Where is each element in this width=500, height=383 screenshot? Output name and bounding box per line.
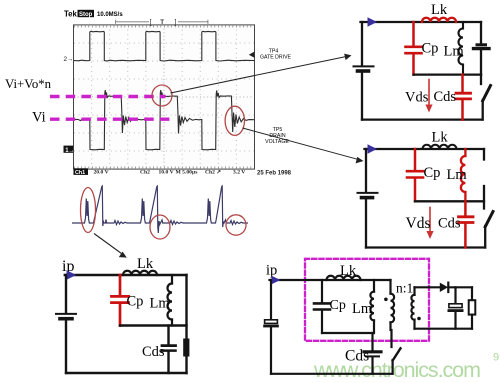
svg-text:3.2 V: 3.2 V [233, 170, 245, 176]
transformer primary winding [391, 280, 395, 330]
svg-text:Lm: Lm [352, 301, 373, 317]
capacitor Cp (black) [314, 280, 330, 333]
svg-text:Vi: Vi [32, 110, 46, 126]
svg-text:Cp: Cp [424, 165, 441, 181]
highlight ellipse on turn-off spike [152, 85, 172, 106]
inductor Lk (red) [422, 18, 456, 22]
annotation arrow to circuit 2 [243, 128, 360, 160]
svg-text:Lk: Lk [431, 2, 448, 18]
T position bracket [116, 20, 208, 24]
switch blade [485, 212, 493, 227]
status bar readouts [94, 170, 246, 176]
wire top [65, 274, 187, 276]
switch lower wire [392, 360, 394, 374]
svg-text:Lk: Lk [340, 263, 357, 279]
wire right mid stub [483, 186, 485, 209]
svg-text:20.0 V: 20.0 V [94, 170, 109, 176]
source nVo plate short [477, 43, 486, 46]
primary current waveform [72, 186, 248, 233]
svg-text:Lk: Lk [432, 130, 449, 146]
wire mid [414, 73, 482, 75]
transformer secondary winding [411, 287, 414, 328]
svg-text:9: 9 [493, 352, 499, 364]
wire left lower [270, 327, 272, 373]
dashed resonant-tank box [305, 259, 429, 341]
wire mid [120, 324, 187, 326]
wire left upper [65, 275, 67, 313]
source plate short [60, 317, 72, 321]
current arrow [368, 17, 378, 26]
source plate long [56, 313, 76, 315]
Ch2 gate drive trace [74, 31, 254, 61]
full flyback circuit (bottom right) [265, 259, 476, 374]
equivalent circuit 1 (diode conducting) [354, 2, 491, 120]
svg-text:Cds: Cds [434, 89, 457, 105]
channel 1 marker [64, 146, 74, 153]
svg-text:Lm: Lm [444, 44, 465, 60]
grid center crosshair lines [74, 25, 254, 169]
current arrow [67, 270, 77, 279]
switch blade [393, 348, 401, 360]
secondary top wire [415, 286, 440, 288]
switch lower wire [482, 100, 484, 120]
svg-text:Cds: Cds [142, 344, 165, 360]
load wire lower [471, 315, 473, 329]
capacitor Cds (red) [456, 75, 471, 120]
wire right [185, 275, 187, 373]
svg-text:M 5.00µs: M 5.00µs [176, 170, 199, 176]
svg-text:Lm: Lm [447, 167, 468, 183]
wire left lower [65, 321, 67, 374]
svg-text:Vds: Vds [405, 90, 429, 106]
source Vi plate long [358, 192, 378, 194]
bottom edge tick ruler [74, 166, 254, 168]
grid dotted rows [74, 43, 254, 151]
current arrow [272, 276, 281, 285]
oscilloscope screenshot [64, 10, 292, 177]
equivalent circuit 3 (bottom left, switch on) [56, 256, 189, 373]
Ch1 drain voltage trace [74, 90, 254, 150]
svg-text:Stop: Stop [79, 12, 93, 18]
highlight ellipse on ringing [225, 106, 244, 135]
switch lower wire [484, 226, 486, 248]
wire left lower [361, 73, 363, 120]
diode D [440, 283, 448, 292]
load wire upper [471, 287, 473, 300]
capacitor Cds (black) [162, 326, 176, 374]
svg-text:Cds: Cds [345, 348, 369, 365]
svg-text:Cp: Cp [422, 41, 439, 57]
equivalent circuit 2 (diode off) [358, 130, 494, 248]
wire left upper [270, 280, 272, 319]
capacitor Cds (black) [364, 333, 381, 374]
svg-text:Vi+Vo*n: Vi+Vo*n [5, 77, 52, 91]
capacitor Cp (red) [406, 22, 422, 75]
highlight ellipse on turn-off edge [150, 215, 170, 239]
grid dotted columns [92, 25, 237, 169]
highlight ellipse on turn-on spike [81, 188, 96, 233]
svg-text:T: T [160, 19, 164, 26]
wire top [361, 21, 482, 23]
switch closed bar [183, 339, 189, 357]
inductor Lm (red) [461, 149, 466, 201]
svg-text:Ch2 ↗: Ch2 ↗ [205, 170, 221, 176]
inductor Lk (black) [423, 145, 457, 149]
capacitor Cp (red) [112, 275, 129, 326]
svg-text:Cp: Cp [330, 298, 346, 313]
output cap wire [454, 287, 456, 303]
inductor Lk (black) [327, 276, 361, 280]
wire left upper [361, 22, 363, 65]
current arrow [368, 144, 378, 153]
secondary bottom wire [415, 328, 473, 330]
wire mid [322, 332, 374, 334]
wire bottom [362, 118, 483, 120]
source Vi plate short [362, 196, 373, 200]
wire right mid [480, 51, 482, 75]
wire bottom [366, 246, 485, 248]
svg-text:Lk: Lk [137, 256, 154, 272]
status bar Ch1 badge [74, 168, 89, 175]
output cap hollow plate [449, 304, 462, 308]
inductor Lk (black) [123, 271, 157, 275]
wire right upper stub [483, 149, 485, 160]
trigger level arrow [249, 52, 255, 58]
annotation arrow to circuit 1 [171, 56, 348, 93]
source Vi plate long [354, 65, 374, 67]
output cap wire lower [454, 312, 456, 329]
svg-text:GATE DRIVE: GATE DRIVE [260, 55, 292, 61]
svg-text:10.0MS/s: 10.0MS/s [97, 12, 123, 18]
input cap hollow plate [265, 320, 278, 324]
secondary polarity dot [417, 317, 421, 321]
secondary top wire 2 [448, 286, 472, 288]
svg-text:10.0 V: 10.0 V [159, 170, 174, 176]
Stop badge [78, 10, 95, 17]
svg-text:2→: 2→ [64, 56, 74, 63]
wire mid [415, 200, 484, 202]
svg-text:25 Feb 1998: 25 Feb 1998 [257, 171, 292, 177]
svg-text:1→: 1→ [65, 148, 74, 154]
highlight ellipse on residual ringing [226, 215, 246, 235]
source Vi plate short [358, 69, 369, 73]
svg-text:n:1: n:1 [396, 281, 413, 296]
svg-text:Ch2: Ch2 [140, 170, 150, 176]
input cap solid plate [265, 325, 278, 328]
svg-text:Tek: Tek [64, 10, 78, 19]
dashed level line Vi [50, 117, 170, 120]
switch upper wire [390, 330, 392, 347]
capacitor Cp (red) [407, 149, 423, 201]
source nVo plate long [474, 47, 490, 50]
annotation arrow to circuit 3 [94, 234, 124, 256]
wire bottom [66, 372, 187, 374]
primary polarity dot [384, 298, 388, 302]
top edge tick ruler [74, 25, 254, 27]
wire right upper [480, 22, 482, 43]
wire top [365, 148, 485, 150]
wire left lower [365, 199, 367, 247]
inductor Lm (black) [168, 275, 173, 326]
load resistor [469, 300, 476, 314]
svg-text:Cp: Cp [127, 294, 144, 310]
switch blade [483, 86, 491, 101]
svg-text:Lm: Lm [150, 296, 171, 312]
wire bottom [271, 373, 393, 375]
output cap solid plate [449, 309, 462, 312]
svg-text:VOLTAGE: VOLTAGE [265, 139, 289, 145]
wire left upper [365, 149, 367, 192]
svg-text:]: ] [175, 20, 177, 27]
inductor Lm (black) [459, 22, 463, 75]
Vds arrow [429, 208, 431, 233]
svg-text:Cds: Cds [438, 216, 461, 232]
svg-text:Vds: Vds [406, 215, 431, 232]
dashed level line Vi+Vo*n [50, 95, 166, 98]
svg-text:Ch1: Ch1 [75, 170, 85, 176]
switch stub [480, 75, 482, 84]
wire top [270, 279, 391, 281]
inductor Lm (black) [370, 280, 374, 333]
Vds arrow [428, 80, 430, 106]
capacitor Cds (red) [459, 201, 474, 247]
svg-text:www.cntronics.com: www.cntronics.com [313, 358, 481, 382]
scope graticule frame [74, 25, 255, 169]
svg-text:[: [ [150, 20, 152, 27]
